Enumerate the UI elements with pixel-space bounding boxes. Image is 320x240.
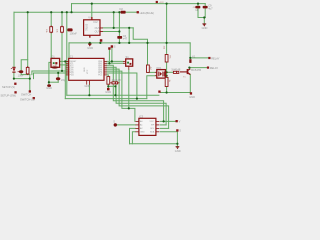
wire riser x119.4 w cap [118,12,120,36]
svg-text:GND: GND [202,26,208,30]
svg-text:SWITCH-(S): SWITCH-(S) [20,98,35,102]
svg-text:K1: K1 [192,54,196,58]
net flag gnd row right [190,92,192,94]
net flag RELAY-(C) [207,67,209,69]
svg-text:LED-(BLUE): LED-(BLUE) [140,11,155,15]
wire regulator input drop [91,4,93,18]
capacitor C4 oval [56,77,60,80]
wire cap E stub [48,82,50,84]
wire cap F bottom to rail [118,39,120,43]
wire top rail y3.6 [72,3,206,5]
svg-text:GND: GND [46,86,52,90]
wire jog x133.2 to x147.5 [133,28,147,43]
wire IC3 pin6 stub [160,127,168,129]
wire pin y65.2 staircase to IC3 pin8 [107,65,164,121]
voltage regulator IC2 [84,16,103,38]
svg-text:IC1: IC1 [69,55,74,59]
wire cap bank bottom tie [198,17,205,19]
net flag b right of IC1 [108,47,110,49]
wire cap D bottom row y82.2 [49,81,58,83]
wire led flag run [126,11,137,13]
resistor R2 top column a [50,26,53,34]
svg-text:GND: GND [87,46,93,50]
wire diode A bottom [13,73,15,79]
resistor R4 feeding opto [147,65,150,72]
svg-text:+12V: +12V [159,2,165,4]
net flag gnd row left [158,91,160,93]
wire riser x66.8 long gnd drop [66,12,68,95]
net flag SETUP-(SW) [14,91,16,93]
resistor R5 above opto [165,55,168,63]
eeprom IC3 [136,115,160,136]
relay pin mark [189,59,191,63]
svg-text:V: V [179,119,181,123]
transistor T1 BC547 [180,69,190,75]
gnd flag below R3b [107,88,110,91]
wire switch row y78.6 [14,78,30,80]
wire left riser x14 [13,12,15,67]
wire crystal pin2 to IC [60,64,69,66]
svg-text:1N4148: 1N4148 [171,68,181,72]
wire to IC pin PD y71 [32,71,69,75]
net flag RELAY [208,57,210,59]
svg-text:SETUP-(S): SETUP-(S) [2,85,15,89]
svg-text:22p: 22p [61,78,66,82]
gnd symbol under IC3 net [176,146,180,149]
wire base link to diode [167,71,173,73]
wire R5 bottom to opto [166,62,168,72]
svg-text:RELAY: RELAY [210,66,219,70]
svg-text:GND: GND [105,90,111,94]
svg-text:Q1: Q1 [51,54,55,58]
wire cap D stubs [57,73,59,82]
svg-text:GND: GND [175,149,181,153]
svg-text:n47: n47 [123,37,128,41]
wire R1 bottom to crystal top [50,32,52,58]
wire relay flag row [190,57,208,59]
net flag SWITCH-(S) [33,97,35,99]
net flag IC3 pin5 [176,129,178,131]
wire gnd run y95.2 [67,94,159,96]
wire +12V top rail y12 [14,11,119,13]
wire IC3 pin3 gnd riser [130,128,136,143]
wire riser x113.7 [113,12,115,28]
svg-text:VCC: VCC [150,121,155,123]
wire riser x62 to R [61,12,63,26]
svg-text:IC3: IC3 [139,115,144,119]
wire reg OUT row y27.9 [103,27,133,29]
wire pin y69.1 staircase to IC3 pin6 [107,69,169,128]
svg-text:GND: GND [85,84,91,88]
capacitor F on riser x119.4 [117,36,122,39]
wire IC3 pin2 to pad [117,124,135,126]
net flag square on rail (AGND) [100,39,103,42]
net flag SWITCH [29,90,31,92]
svg-text:IC2: IC2 [94,20,99,24]
svg-text:D2: D2 [120,7,124,11]
capacitor under crystal [51,66,58,68]
net flag a right of IC1 [111,45,113,47]
wire under switch parts y74.6 [21,74,30,76]
net flag SETUP-(S) [14,83,16,85]
wire R4 bottom to opto pin1 [148,71,155,73]
wire emitter down [189,74,191,92]
wire riser x27.7 [27,12,29,67]
resistor R6 below opto [165,77,168,86]
resistor R3 top column b [61,26,64,34]
diode D4 base [173,71,178,73]
svg-text:1N4148: 1N4148 [112,78,122,82]
diode D2 on +12 rail [121,11,126,14]
svg-text:100nF: 100nF [70,31,78,35]
wire xtal riser down x65.3 [64,61,66,98]
wire up to opto pin3 [147,76,155,99]
capacitor C5 oval [47,84,51,87]
sensor box S1 [123,59,133,70]
wire IC3 pin7 stub [160,124,166,126]
wire crystal left pin down [49,62,51,82]
wire riser x51.2 to R [50,12,52,26]
capacitor C8 top right [195,6,200,8]
wire jog to oval cap [21,60,28,71]
wire R3 top from pin y74.9 [107,75,109,77]
wire S box bottom drop [128,70,130,109]
wire +V rail y42.9 [69,42,190,44]
resistor R3b below IC1 [107,77,110,85]
wire resistor gnd drop [114,86,116,95]
net flag LED(BLUE) [137,11,139,13]
svg-text:SDA: SDA [150,131,155,134]
svg-text:RELAY: RELAY [211,56,220,60]
diode D1 (LED) left column [11,67,16,73]
wire R3 bottom to gnd flag [107,84,109,88]
svg-text:SETUP-(SW): SETUP-(SW) [1,93,17,97]
wire pin y71.1 staircase to IC3 pin1 [107,71,135,121]
wire rail to R4 top [147,43,149,65]
resistor R1 (switch pullup) [26,66,29,75]
wire R6 top stub [166,76,168,78]
svg-text:OK1: OK1 [156,66,162,70]
net flag IC3 pin8 [176,120,178,122]
wire IC1 gnd pin drop [88,85,90,96]
svg-text:GND: GND [189,95,195,99]
wire riser x129.2 [128,28,130,43]
svg-text:S: S [179,129,181,133]
wire IC right pin row y63.3 to S box [107,62,123,64]
svg-text:BC547B: BC547B [191,68,201,72]
wire flag b riser [108,50,110,64]
wire relay C flag row [189,67,207,69]
wire resistor C bottom stub [27,73,29,76]
wire oval B stub [20,73,22,75]
wire riser to top rail [71,4,73,13]
optocoupler OK1 [155,70,168,79]
capacitor C2 oval (polarized) [18,70,24,73]
wire IC3 right flag2 drop [176,132,178,147]
wire top rail drop x166.6 [166,4,168,43]
crystal Q1 box [51,58,60,67]
wire IC3 gnd row y143.7 [130,143,178,145]
svg-text:SWITCH: SWITCH [21,93,31,97]
wire crystal pin1 to IC [60,60,69,62]
gnd symbol under regulator [88,44,92,47]
svg-text:VCC: VCC [87,69,89,74]
diode D3 below IC1 [110,82,119,84]
wire gnd short row y86.3 [108,85,115,87]
wire reg OUT2 row y31.5 [103,31,120,33]
svg-text:10uF: 10uF [18,73,24,77]
wire to IC pin PD y73 [34,73,69,79]
wire IC right pin row y61.4 to S box [107,60,123,62]
wire rail corner to relay row [189,43,191,58]
wire gnd row y92.5 [161,92,190,94]
wire long bottom run y98.6 [65,98,147,100]
svg-text:VI: VI [88,16,91,20]
svg-text:OUT: OUT [95,26,101,30]
capacitor C3 100nF blob [67,28,72,31]
microcontroller IC1 [66,55,107,88]
wire IC3 pin4 drop [132,132,135,144]
wire pin y67.2 staircase to IC3 pin7 [107,67,166,125]
wire R2 bottom down [61,32,63,71]
svg-text:S: S [113,119,115,123]
svg-text:GND: GND [140,132,145,134]
svg-text:S1: S1 [126,55,130,59]
wire R6 bottom to gnd row [166,87,168,93]
pad TP1 left of IC3 [114,123,117,126]
svg-text:GND: GND [84,67,86,72]
wire rail drop to IC top [68,43,70,59]
svg-text:OUT: OUT [95,29,101,33]
svg-text:4u7: 4u7 [208,7,213,11]
svg-text:S: S [114,45,116,49]
wire cap bank riser2 [204,4,206,18]
wire switch riser to flag [29,75,31,91]
wire cap bank riser1 [197,4,199,18]
wire rail to R5 top [166,43,168,55]
net flag +12V top [156,1,158,3]
wire opto right pins tie x166.6 [165,72,167,75]
wire to gnd top right [203,18,205,24]
gnd symbol top right [202,23,206,26]
wire flag a riser [111,48,113,62]
svg-text:78L05: 78L05 [84,23,88,31]
wire IC3 pin5 to flag2 [160,131,176,133]
wire pin y73 drop x136.9 [107,73,137,99]
wire IC3 pin8 to flag [160,120,175,122]
capacitor C9 top right [203,6,208,8]
